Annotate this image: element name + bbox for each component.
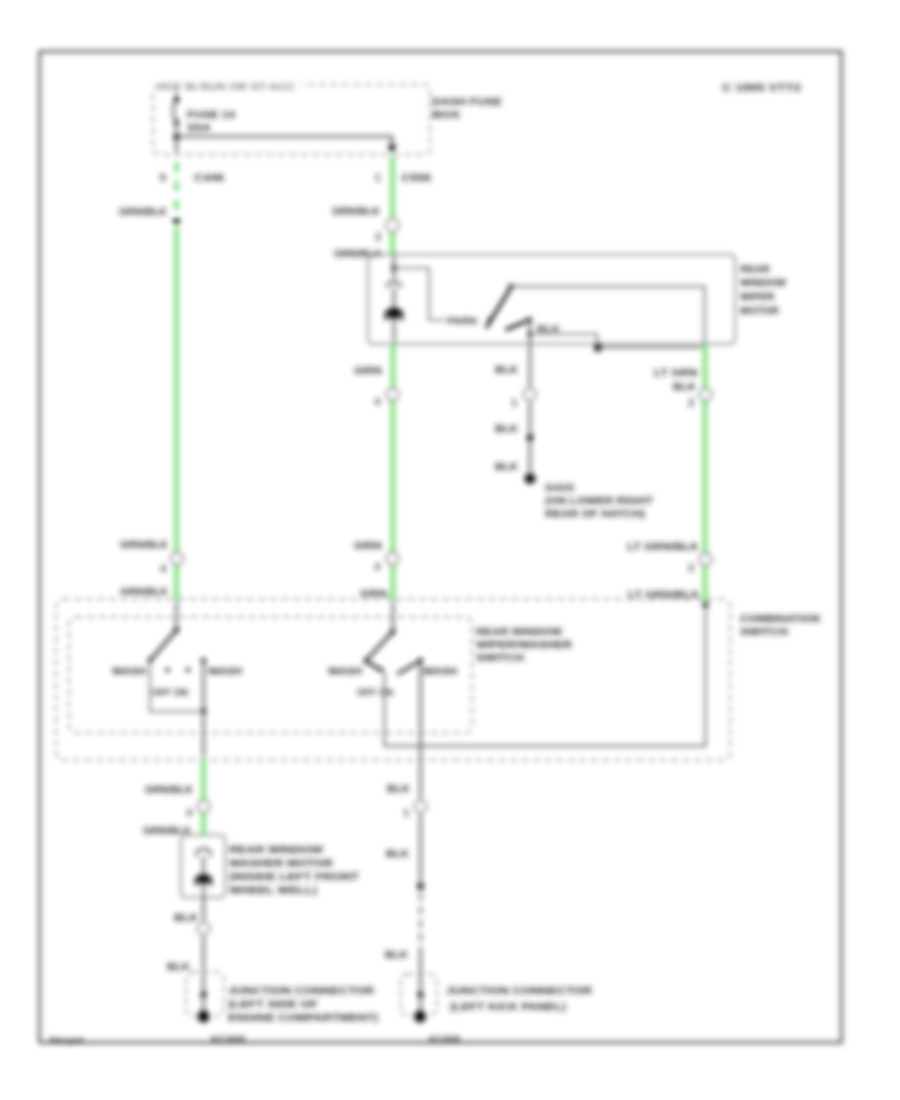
junction connector (left kick panel), dashed: [401, 974, 438, 1015]
node: splice on left feed: [173, 218, 180, 225]
svg-text:1: 1: [403, 808, 409, 819]
svg-text:BLK: BLK: [495, 365, 519, 376]
node: motor feed junction: [391, 265, 396, 270]
svg-text:C446: C446: [194, 173, 225, 184]
svg-text:BLK: BLK: [673, 382, 697, 393]
terminal arrow into C556: [388, 145, 397, 154]
washer switch S1 (left): [176, 600, 178, 629]
wire: motor feed inside box: [393, 255, 395, 280]
svg-text:SWITCH: SWITCH: [740, 626, 788, 638]
svg-text:9: 9: [160, 173, 166, 184]
svg-text:(LEFT SIDE OF: (LEFT SIDE OF: [228, 999, 319, 1011]
node: contact left: [364, 658, 369, 663]
svg-text:PARK: PARK: [447, 316, 478, 327]
svg-text:WASH: WASH: [328, 667, 362, 678]
svg-text:REAR WINDOW: REAR WINDOW: [229, 844, 323, 856]
svg-text:GRN: GRN: [354, 541, 382, 552]
svg-text:OFF ON: OFF ON: [357, 688, 393, 699]
svg-text:WASH: WASH: [112, 667, 146, 678]
svg-text:LT GRN: LT GRN: [654, 368, 698, 379]
node: splice: [201, 992, 207, 998]
connector ring pin 2: [700, 389, 712, 401]
svg-text:2: 2: [688, 563, 694, 574]
svg-text:LT GRN/BLK: LT GRN/BLK: [627, 542, 700, 553]
svg-text:2: 2: [688, 398, 694, 409]
node: terminal: [198, 1011, 210, 1023]
svg-text:G415: G415: [545, 483, 575, 494]
wire: wiper switch return path to LT GRN/BLK: [385, 605, 706, 747]
rear window wiper/washer switch inner box (dashed): [69, 617, 472, 733]
node: pivot: [390, 629, 395, 634]
svg-text:GRN/BLK: GRN/BLK: [120, 587, 169, 598]
node: bracket junction: [201, 708, 206, 713]
svg-text:JUNCTION CONNECTOR: JUNCTION CONNECTOR: [228, 985, 374, 997]
svg-text:4: 4: [186, 808, 192, 819]
svg-text:GRN: GRN: [354, 366, 382, 377]
connector ring: [198, 923, 210, 935]
node: junction on lower wire: [594, 343, 603, 352]
svg-text:BLK: BLK: [385, 950, 409, 961]
wire: LT GRN/BLK from motor to switch: [703, 345, 708, 601]
node: fuse output junction: [174, 134, 180, 140]
connector ring pin 4: [387, 553, 399, 565]
switch arm (wiper motor park switch): [486, 288, 511, 329]
node: WASH contact right: [201, 658, 206, 663]
svg-text:4: 4: [374, 397, 380, 408]
connector ring pin 4 (left wire): [171, 553, 183, 565]
svg-text:WINDOW: WINDOW: [740, 277, 786, 289]
node: WASH contact left: [148, 658, 153, 663]
svg-text:BLK: BLK: [387, 784, 411, 795]
svg-text:(ON LOWER RIGHT: (ON LOWER RIGHT: [545, 496, 653, 507]
connector ring pin 1: [415, 801, 427, 813]
svg-text:OFF ON: OFF ON: [152, 688, 188, 699]
svg-text:WASH: WASH: [423, 667, 457, 678]
node: position dots: [165, 668, 169, 672]
svg-text:C 1995 VTT2: C 1995 VTT2: [722, 83, 802, 94]
svg-text:1: 1: [375, 173, 381, 184]
svg-text:4: 4: [374, 562, 380, 573]
connector ring pin 2: [386, 219, 399, 232]
node: splice: [417, 883, 424, 890]
connector ring pin 4: [198, 801, 210, 813]
svg-text:DASH FUSE: DASH FUSE: [432, 96, 502, 108]
junction connector (left side of engine compartment), dashed: [186, 972, 224, 1016]
node: switch terminal dot: [702, 601, 708, 607]
svg-text:61309: 61309: [429, 1035, 461, 1044]
svg-text:REAR WINDOW: REAR WINDOW: [476, 626, 562, 638]
switch arm: [152, 630, 177, 659]
svg-text:WIPER: WIPER: [740, 291, 775, 303]
wire: GRN/BLK left feed down to combination switch: [174, 228, 179, 601]
svg-text:C556: C556: [401, 173, 432, 184]
svg-text:SWITCH: SWITCH: [476, 652, 524, 664]
svg-text:REAR: REAR: [740, 264, 770, 276]
wire: GRN/BLK to washer motor: [201, 759, 206, 836]
node: terminal: [414, 1011, 426, 1023]
wiper switch S2 (center): [392, 600, 394, 631]
svg-text:Herget: Herget: [49, 1036, 84, 1045]
svg-text:GRN/BLK: GRN/BLK: [120, 540, 169, 551]
svg-text:(LEFT KICK PANEL): (LEFT KICK PANEL): [450, 1001, 566, 1013]
circuit breaker arc: [387, 282, 402, 287]
wire: [529, 437, 531, 472]
svg-text:REAR OF HATCH): REAR OF HATCH): [545, 509, 645, 520]
node: position dot: [379, 668, 383, 672]
svg-text:GRN/BLK: GRN/BLK: [332, 207, 381, 218]
svg-text:FUSE 14: FUSE 14: [187, 110, 236, 121]
wire: fuse feed inside dash fuse box: [176, 86, 178, 99]
svg-text:WIPER/WASHER: WIPER/WASHER: [476, 639, 572, 651]
node: splice: [418, 992, 424, 998]
wiper motor symbol: [385, 308, 403, 323]
connector ring pin 2: [700, 554, 712, 566]
wire: branch to C556: [177, 137, 393, 147]
svg-text:1: 1: [511, 398, 517, 409]
fuse box (dashed) DASH FUSE BOX: [153, 85, 430, 155]
svg-text:GRN/BLK: GRN/BLK: [119, 207, 168, 218]
svg-text:WHEEL WELL): WHEEL WELL): [229, 885, 317, 897]
svg-text:BLK: BLK: [174, 913, 199, 924]
svg-text:COMBINATION: COMBINATION: [740, 613, 820, 625]
svg-text:61309: 61309: [211, 1035, 246, 1044]
rear window wiper motor box M1: [368, 255, 735, 345]
ground G415: [525, 473, 536, 484]
svg-text:2: 2: [375, 232, 381, 243]
fuse F14 20A: [174, 97, 180, 103]
svg-text:BLK: BLK: [495, 462, 519, 473]
svg-text:BLK: BLK: [386, 849, 410, 860]
wire: wiper switch BLK output: [420, 661, 422, 884]
wire: BLK washer motor ground: [203, 898, 205, 971]
wire: contact down: [529, 320, 531, 345]
svg-text:WASH: WASH: [208, 667, 242, 678]
svg-text:ENGINE COMPARTMENT): ENGINE COMPARTMENT): [228, 1012, 378, 1024]
node: splice inside motor: [528, 332, 533, 337]
wire: junction to LT GRN/BLK: [598, 347, 705, 349]
svg-text:MOTOR: MOTOR: [740, 305, 779, 317]
svg-text:20A: 20A: [187, 123, 211, 134]
svg-text:BOX: BOX: [432, 109, 460, 121]
switch arm: [368, 632, 393, 659]
svg-text:(INSIDE LEFT FRONT: (INSIDE LEFT FRONT: [229, 871, 360, 883]
rear window washer motor box M2: [181, 835, 225, 898]
svg-text:GRN/BLK: GRN/BLK: [145, 785, 194, 796]
connector ring pin 1: [524, 389, 536, 401]
wire: fuse output down: [176, 123, 178, 154]
node: arm pivot: [508, 284, 513, 289]
wire: park switch branch: [394, 268, 445, 320]
washer motor symbol: [195, 874, 212, 887]
switch arm lower bend: [365, 661, 384, 672]
svg-text:WASHER MOTOR: WASHER MOTOR: [229, 858, 333, 870]
wire: pivot to right side: [511, 287, 705, 345]
switch arm 2: [506, 320, 531, 331]
wire: washer switch bracket: [150, 661, 204, 712]
node: contact right: [418, 658, 423, 663]
node: pivot: [174, 627, 179, 632]
wire: dashed BLK segment: [420, 893, 422, 948]
node: BLK contact: [528, 317, 532, 321]
node: park contact: [488, 317, 492, 321]
svg-text:JUNCTION CONNECTOR: JUNCTION CONNECTOR: [446, 985, 592, 997]
wire: [529, 400, 531, 434]
combination switch outer box (dashed): [56, 599, 730, 760]
svg-text:BLK: BLK: [495, 424, 519, 435]
wire: GRN/BLK dashed through connector C556: [390, 157, 395, 256]
node: ground splice: [527, 434, 534, 441]
wire: BLK motor ground drop: [529, 344, 531, 389]
switch arm ON: [398, 661, 422, 675]
svg-text:4: 4: [160, 564, 166, 575]
connector ring pin 4: [387, 389, 399, 401]
wire: washer output: [203, 661, 205, 761]
wire: GRN motor to switch (center): [391, 344, 396, 600]
wire: splice to right: [530, 334, 597, 348]
wire: GRN/BLK dashed through connector C446: [174, 162, 179, 210]
svg-text:BLK: BLK: [167, 962, 191, 973]
